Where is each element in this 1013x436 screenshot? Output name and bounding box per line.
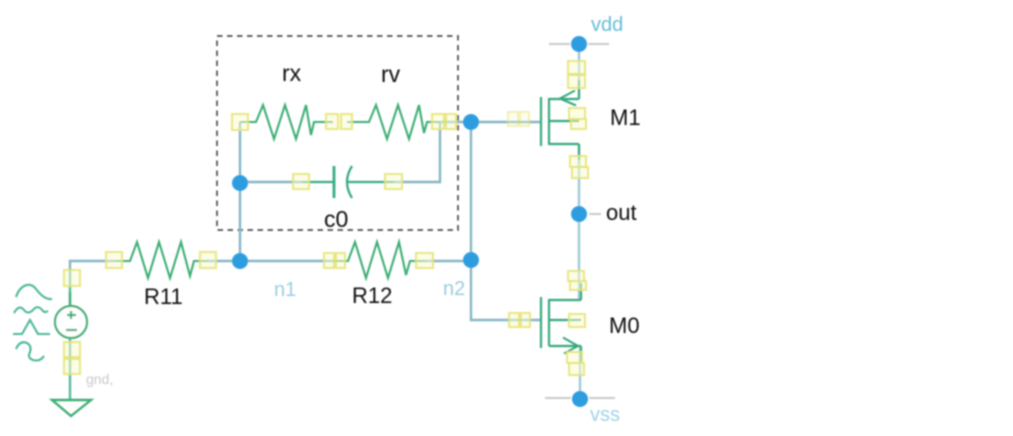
svg-text:n2: n2 (443, 278, 465, 300)
capacitor C0 plates (302, 166, 394, 198)
svg-text:R12: R12 (352, 283, 392, 308)
svg-text:rx: rx (282, 60, 302, 86)
ground symbol (52, 400, 91, 416)
wire: vertical rx-left / cap-left / n1 (239, 122, 241, 261)
pin markers (yellow) (64, 61, 588, 375)
wire: cap right to riser (394, 122, 440, 182)
nmos M0 source arrow (563, 338, 578, 354)
dashed enclosure box around rx rv c0 (217, 36, 458, 230)
svg-text:n1: n1 (274, 279, 296, 301)
svg-text:M1: M1 (610, 105, 641, 130)
svg-text:R11: R11 (144, 284, 183, 309)
svg-text:rv: rv (381, 61, 401, 87)
resistor rx (240, 105, 333, 139)
wire: cap branch left lead (240, 181, 302, 183)
pmos transistor M1 (541, 80, 579, 160)
node cap-left junction (232, 175, 248, 191)
faint rail ticks at global symbols (545, 44, 615, 398)
svg-text:gnd,: gnd, (86, 371, 113, 387)
wire: R12 right to node n2 (425, 260, 471, 262)
node n2 (463, 252, 479, 268)
wire: M0 source to vss (579, 346, 581, 399)
svg-text:M0: M0 (609, 313, 640, 338)
vsource waveform squiggles (13, 285, 52, 361)
resistor R11 (114, 242, 208, 278)
svg-text:vss: vss (590, 404, 620, 426)
wire: node n1 to R12 left (240, 260, 334, 262)
node n1 (232, 253, 248, 269)
resistor rv (347, 105, 440, 139)
nmos transistor M0 (541, 283, 581, 362)
svg-text:vdd: vdd (591, 14, 623, 36)
node junction rx/rv to n2 (463, 114, 479, 130)
resistor R12 (334, 242, 425, 278)
voltage source V0 (55, 292, 87, 338)
node out (571, 206, 587, 222)
svg-text:out: out (606, 200, 637, 225)
wire: R11 right to node n1 (208, 260, 240, 262)
pmos M1 source arrow (560, 91, 576, 106)
wire: junction down to n2 and to M0 gate (471, 122, 540, 320)
wire: rv right to junction and to M1 gate (440, 121, 540, 123)
node vss (572, 391, 588, 407)
node vdd (solder dot) (571, 36, 587, 52)
wire: M1 drain to out to M0 drain (578, 144, 580, 300)
wire: vdd to M1 source (578, 44, 580, 99)
wire: source top to R11 left (70, 261, 114, 268)
svg-text:c0: c0 (324, 206, 348, 232)
wire: source bottom to gnd (69, 338, 71, 400)
